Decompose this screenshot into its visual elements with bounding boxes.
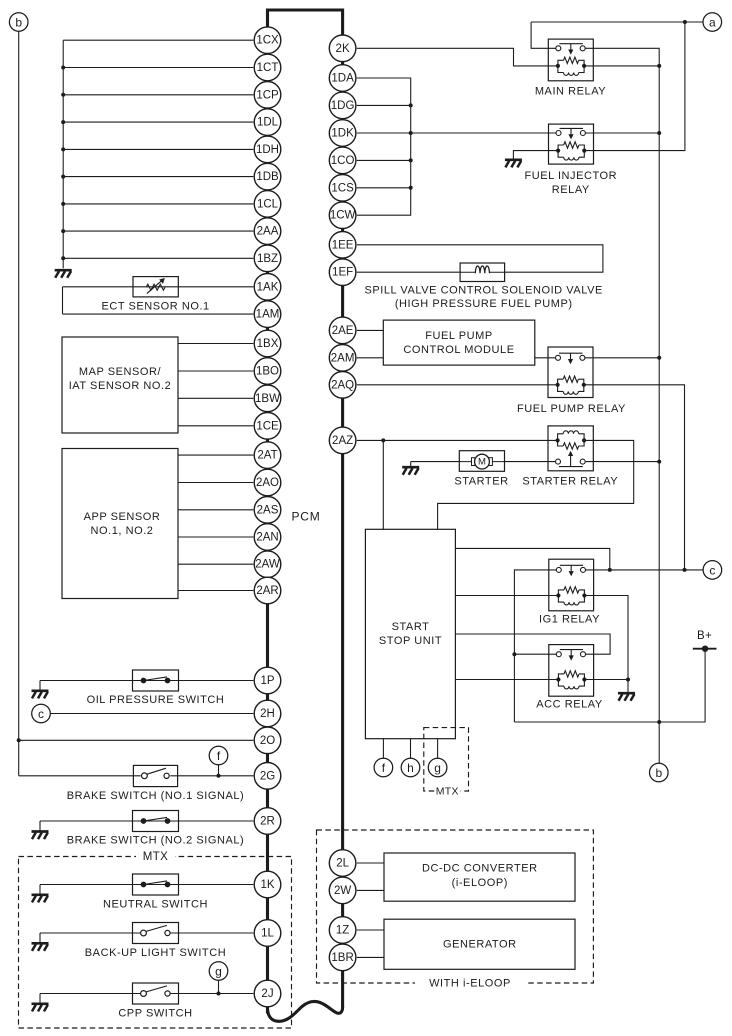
wire 2AE row	[357, 329, 384, 331]
svg-text:c: c	[38, 707, 44, 721]
svg-text:1AK: 1AK	[257, 281, 279, 293]
PCM pin 2AT	[254, 442, 281, 469]
PCM pin 2AO	[254, 469, 281, 496]
PCM pin 1DB	[254, 163, 281, 190]
wire 2AM row	[357, 357, 384, 359]
wire start stop unit to IG1 coil	[455, 595, 556, 597]
svg-text:2O: 2O	[260, 735, 275, 747]
ground (oil pressure switch)	[32, 691, 49, 699]
PCM pin 1BO	[254, 358, 281, 385]
ECT sensor thermistor box	[133, 277, 178, 297]
solenoid coil symbol (spill valve)	[460, 266, 505, 273]
svg-text:1EF: 1EF	[332, 267, 353, 279]
wire x685: a to fuel injector relay coil	[584, 22, 685, 151]
wire main relay switch right / x659 bus	[585, 48, 659, 722]
svg-text:1DB: 1DB	[256, 171, 279, 183]
wire 1K row	[40, 884, 253, 886]
svg-text:STOP UNIT: STOP UNIT	[379, 635, 442, 647]
junction 1DG row	[409, 103, 413, 107]
wire 1BZ row	[63, 257, 253, 259]
wire 2AR row	[178, 590, 253, 592]
junction 1CP row / left bus	[61, 93, 65, 97]
wire 2AZ down to start stop unit	[382, 440, 384, 529]
svg-text:ACC RELAY: ACC RELAY	[536, 698, 603, 710]
PCM pin 2AS	[254, 497, 281, 524]
START STOP UNIT box	[365, 529, 455, 738]
wire 1L row left	[40, 932, 141, 934]
junction 2AZ / start stop unit feed	[381, 438, 385, 442]
wire ACC switch left	[514, 653, 556, 655]
svg-text:g: g	[434, 761, 441, 775]
svg-text:1CS: 1CS	[331, 182, 354, 194]
junction ACC switch left / x514 bus	[512, 652, 516, 656]
wire left ground bus vertical	[62, 40, 64, 268]
svg-text:2AR: 2AR	[256, 585, 278, 597]
PCM pin 2O	[254, 727, 281, 754]
wire 1P row	[40, 680, 253, 682]
svg-text:MAP SENSOR/: MAP SENSOR/	[79, 366, 162, 378]
terminal B+	[693, 646, 717, 652]
label MTX (g pin)	[435, 786, 461, 798]
junction main relay coil / x659 bus	[657, 64, 661, 68]
wire 2L row	[357, 862, 384, 864]
svg-text:BRAKE SWITCH (NO.2 SIGNAL): BRAKE SWITCH (NO.2 SIGNAL)	[67, 834, 245, 846]
MAP/IAT sensor box	[62, 337, 178, 433]
generator box	[384, 919, 575, 969]
PCM pin 1CL	[254, 191, 281, 218]
junction 2AA row / left bus	[61, 229, 65, 233]
svg-text:1CP: 1CP	[256, 89, 279, 101]
svg-text:OIL PRESSURE SWITCH: OIL PRESSURE SWITCH	[87, 694, 225, 706]
wire a to main relay switch	[531, 22, 556, 48]
svg-text:IG1 RELAY: IG1 RELAY	[539, 614, 600, 626]
junction fuel injector switch / x659 bus	[657, 131, 661, 135]
svg-text:h: h	[407, 761, 414, 775]
PCM pin 2K	[329, 35, 356, 62]
relay MAIN RELAY	[548, 39, 593, 81]
wire IG1 switch left down	[514, 570, 556, 722]
solenoid valve box	[460, 263, 505, 282]
node g (start stop unit)	[428, 758, 447, 777]
PCM pin 2L	[329, 850, 356, 877]
wire starter to starter relay switch	[505, 461, 557, 463]
PCM pin 2J	[254, 980, 281, 1007]
svg-text:(HIGH PRESSURE FUEL PUMP): (HIGH PRESSURE FUEL PUMP)	[395, 298, 573, 310]
node a	[703, 13, 722, 32]
PCM pin 1BR	[329, 944, 356, 971]
PCM pin 1CT	[254, 54, 281, 81]
wire fuel pump relay coil right / x684 down	[583, 385, 685, 570]
junction 1CT row / left bus	[61, 66, 65, 70]
wire ground stub (CPP switch)	[39, 994, 41, 1003]
svg-text:1BX: 1BX	[257, 338, 279, 350]
svg-text:2AN: 2AN	[256, 532, 278, 544]
svg-text:2R: 2R	[260, 816, 275, 828]
svg-text:2G: 2G	[260, 770, 275, 782]
wire main relay coil right	[584, 65, 659, 67]
svg-text:b: b	[655, 766, 662, 780]
junction starter switch / x659 bus	[657, 460, 661, 464]
svg-text:2W: 2W	[334, 885, 351, 897]
wire node-a horizontal	[531, 21, 703, 23]
wire 2H row	[50, 713, 253, 715]
svg-text:2L: 2L	[336, 858, 349, 870]
svg-text:1CE: 1CE	[256, 420, 279, 432]
ground (neutral switch)	[32, 895, 49, 903]
junction fuel pump switch / x659 bus	[657, 356, 661, 360]
relay FUEL PUMP RELAY	[548, 347, 593, 398]
APP sensor box	[62, 449, 178, 599]
PCM pin 1AM	[254, 301, 281, 328]
dashed enclosure WITH i-ELOOP	[317, 830, 594, 983]
svg-text:1CL: 1CL	[257, 198, 279, 210]
svg-text:APP SENSOR: APP SENSOR	[84, 511, 161, 523]
fuel pump control module box	[383, 320, 535, 365]
svg-text:1CO: 1CO	[331, 155, 355, 167]
PCM pin 1CW	[329, 202, 356, 229]
svg-text:2AA: 2AA	[257, 226, 279, 238]
node h (start stop unit)	[401, 758, 420, 777]
node c (left)	[32, 704, 51, 723]
wire 2AQ to fuel pump relay coil	[357, 384, 557, 386]
svg-text:MTX: MTX	[436, 785, 459, 797]
ground (IG1/ACC relay)	[618, 693, 635, 701]
wire pin f stub	[382, 739, 384, 759]
PCM pin 2G	[254, 763, 281, 790]
svg-text:MTX: MTX	[143, 851, 168, 863]
node b (right)	[650, 763, 669, 782]
svg-text:PCM: PCM	[291, 510, 320, 524]
svg-text:1DK: 1DK	[331, 128, 354, 140]
node f (start stop unit)	[374, 758, 393, 777]
svg-text:1AM: 1AM	[256, 309, 280, 321]
PCM pin 1CO	[329, 147, 356, 174]
wire 1CO row	[357, 159, 411, 161]
ground (brake switch no.2)	[32, 832, 49, 840]
wire ACC coil right	[584, 679, 628, 681]
wire 1DG row	[357, 104, 411, 106]
PCM pin 1DA	[329, 65, 356, 92]
svg-text:2AW: 2AW	[255, 559, 280, 571]
wire starter relay coil right loop to start stop unit	[438, 440, 634, 529]
svg-text:1BR: 1BR	[331, 952, 353, 964]
PCM pin 1DL	[254, 109, 281, 136]
PCM pin 1Z	[329, 917, 356, 944]
switch BRAKE SWITCH NO.1 (open)	[133, 765, 177, 786]
ground (back-up light switch)	[32, 943, 49, 951]
relay STARTER RELAY	[548, 426, 593, 471]
wire 1EE loop	[357, 245, 603, 272]
svg-text:1CT: 1CT	[257, 62, 279, 74]
junction 1CS row	[409, 186, 413, 190]
svg-text:2AT: 2AT	[257, 450, 277, 462]
svg-text:2AS: 2AS	[257, 504, 279, 516]
PCM pin 2AZ	[329, 427, 356, 454]
wire g stub (left)	[218, 980, 220, 993]
svg-text:1P: 1P	[260, 675, 274, 687]
svg-text:2K: 2K	[336, 43, 350, 55]
wire 1BR row	[357, 956, 384, 958]
svg-text:1BW: 1BW	[255, 393, 280, 405]
wire fuel injector relay switch right	[582, 132, 659, 134]
wire 1DH row	[63, 148, 253, 150]
switch NEUTRAL SWITCH (closed)	[133, 874, 179, 895]
svg-text:NEUTRAL SWITCH: NEUTRAL SWITCH	[103, 898, 208, 910]
junction a line / right bus	[683, 20, 687, 24]
wire starter relay switch right	[586, 461, 659, 463]
wire 2AA row	[63, 230, 253, 232]
switch CPP SWITCH (open)	[133, 983, 179, 1004]
PCM pin 2AR	[254, 577, 281, 604]
PCM pin 2R	[254, 808, 281, 835]
PCM pin 1BX	[254, 330, 281, 357]
svg-text:MAIN RELAY: MAIN RELAY	[535, 86, 606, 98]
wire 1CE row	[178, 425, 253, 427]
label WITH i-ELOOP	[415, 977, 525, 989]
junction 1DB row / left bus	[61, 175, 65, 179]
junction 1CL row / left bus	[61, 202, 65, 206]
node f (left)	[209, 746, 228, 765]
svg-text:2AO: 2AO	[256, 477, 279, 489]
svg-text:ECT SENSOR NO.1: ECT SENSOR NO.1	[101, 301, 209, 313]
wire module to fuel pump relay switch	[535, 357, 557, 359]
DC-DC converter box	[384, 853, 575, 901]
PCM pin 1BW	[254, 385, 281, 412]
wire left b bus vertical	[18, 30, 20, 776]
wire 1DK to fuel injector relay switch	[411, 132, 557, 134]
junction 2O row / b bus	[17, 738, 21, 742]
PCM pin 2AM	[329, 345, 356, 372]
svg-text:2H: 2H	[260, 708, 275, 720]
junction 1DL row / left bus	[61, 120, 65, 124]
PCM pin 1P	[254, 667, 281, 694]
svg-text:FUEL INJECTOR: FUEL INJECTOR	[524, 170, 617, 182]
PCM pin 1DH	[254, 136, 281, 163]
wire 1DB row	[63, 176, 253, 178]
svg-text:CPP SWITCH: CPP SWITCH	[118, 1007, 192, 1019]
node g (left)	[209, 962, 228, 981]
svg-text:1L: 1L	[261, 928, 274, 940]
wire PCM bus (thick: column 1, top connector, column 2)	[268, 10, 343, 1014]
junction B+ line / x659 bus	[657, 720, 661, 724]
svg-text:1Z: 1Z	[336, 925, 349, 937]
svg-text:b: b	[15, 16, 22, 30]
junction f / 2G row	[217, 774, 221, 778]
wire x659 to node b	[658, 722, 660, 763]
svg-text:STARTER RELAY: STARTER RELAY	[522, 476, 618, 488]
wire 2AZ to starter relay coil	[357, 439, 557, 441]
starter motor STARTER	[459, 451, 504, 472]
wire B+ down and across	[514, 649, 705, 722]
wire ground to starter	[411, 461, 460, 463]
wire 2AO row	[178, 482, 253, 484]
junction g / 2J row	[217, 992, 221, 996]
svg-text:g: g	[215, 965, 222, 979]
ground (starter)	[402, 467, 419, 475]
wire 2AS row	[178, 509, 253, 511]
label MTX (top of dashed box)	[136, 851, 175, 863]
wire 1BW row	[178, 397, 253, 399]
svg-text:RELAY: RELAY	[552, 184, 590, 196]
svg-text:DC-DC CONVERTER: DC-DC CONVERTER	[422, 863, 538, 875]
svg-text:1DA: 1DA	[331, 73, 354, 85]
svg-text:1CX: 1CX	[256, 35, 279, 47]
svg-text:START: START	[392, 621, 430, 633]
svg-text:STARTER: STARTER	[454, 476, 508, 488]
wire 2W row	[357, 889, 384, 891]
node b (top left)	[9, 13, 28, 32]
wire 1AK row	[63, 286, 254, 288]
switch OIL PRESSURE SWITCH (closed)	[133, 670, 179, 691]
wire ground stub (brake switch no.2)	[39, 821, 41, 831]
switch BACK-UP LIGHT SWITCH (open)	[133, 923, 179, 944]
PCM pin 2W	[329, 877, 356, 904]
svg-text:CONTROL MODULE: CONTROL MODULE	[403, 344, 514, 356]
PCM pin 2AA	[254, 218, 281, 245]
ground (fuel injector relay)	[505, 160, 522, 168]
svg-text:2AM: 2AM	[331, 352, 355, 364]
PCM pin 1DG	[329, 92, 356, 119]
junction IG1 switch right	[608, 568, 612, 572]
PCM pin 1CX	[254, 27, 281, 54]
svg-text:BACK-UP LIGHT SWITCH: BACK-UP LIGHT SWITCH	[85, 947, 226, 959]
wire start stop unit to ACC coil	[455, 679, 556, 681]
junction c line / x684	[683, 568, 687, 572]
svg-text:1DL: 1DL	[257, 117, 279, 129]
wire 1CX row	[63, 39, 253, 41]
svg-text:1BO: 1BO	[256, 366, 279, 378]
PCM pin 1L	[254, 920, 281, 947]
wire fuel pump relay switch right	[583, 357, 660, 359]
relay ACC RELAY	[549, 645, 594, 697]
svg-text:1EE: 1EE	[332, 239, 354, 251]
wire 1CP row	[63, 94, 253, 96]
wire pin g stub	[437, 739, 439, 759]
wire ground stub (neutral switch)	[39, 885, 41, 894]
wire 2J row left	[40, 993, 141, 995]
PCM pin 1DK	[329, 120, 356, 147]
wire 1DL row	[63, 121, 253, 123]
PCM pin 1K	[254, 871, 281, 898]
wire 1DA-1CW connector loop	[357, 78, 411, 215]
ground (CPP switch)	[32, 1004, 49, 1012]
svg-text:NO.1, NO.2: NO.1, NO.2	[91, 525, 154, 537]
wire 1CT row	[63, 67, 253, 69]
PCM pin 1AK	[254, 274, 281, 301]
wire 1EF row	[357, 271, 460, 273]
ground (left bus)	[55, 270, 72, 278]
wire start stop unit to ACC switch right	[455, 634, 610, 654]
svg-text:2J: 2J	[261, 988, 273, 1000]
svg-text:M: M	[478, 457, 486, 468]
dashed enclosure MTX (manual transaxle switches)	[19, 857, 292, 1029]
wire IG1 switch right to node c	[583, 569, 704, 571]
PCM pin 1EF	[329, 259, 356, 286]
PCM pin 1CS	[329, 175, 356, 202]
svg-text:c: c	[709, 563, 715, 577]
svg-text:2AE: 2AE	[332, 325, 354, 337]
wire 2G row right	[170, 775, 253, 777]
svg-text:2AZ: 2AZ	[332, 435, 353, 447]
svg-text:SPILL VALVE CONTROL SOLENOID V: SPILL VALVE CONTROL SOLENOID VALVE	[365, 284, 603, 296]
svg-text:1BZ: 1BZ	[257, 253, 278, 265]
wire 1Z row	[357, 929, 384, 931]
PCM pin 2AW	[254, 551, 281, 578]
dashed enclosure MTX (g pin)	[424, 728, 469, 791]
PCM pin 2AN	[254, 524, 281, 551]
svg-text:1K: 1K	[260, 879, 274, 891]
svg-text:FUEL PUMP: FUEL PUMP	[425, 330, 493, 342]
junction IG1/ACC coil ground	[626, 678, 630, 682]
svg-text:2AQ: 2AQ	[331, 379, 354, 391]
wire 2AT row	[178, 454, 253, 456]
junction 1CO row	[409, 158, 413, 162]
PCM pin 2H	[254, 700, 281, 727]
wire PCM bottom wavy continuation	[268, 1001, 343, 1021]
wire 2G row left (to brake switch)	[19, 775, 141, 777]
wire 1AM row	[63, 313, 254, 315]
node c (right)	[703, 561, 722, 580]
PCM pin 2AQ	[329, 372, 356, 399]
wire 1CL row	[63, 203, 253, 205]
svg-text:BRAKE SWITCH (NO.1 SIGNAL): BRAKE SWITCH (NO.1 SIGNAL)	[67, 790, 245, 802]
relay FUEL INJECTOR RELAY	[549, 124, 594, 164]
wire ground stub (oil pressure switch)	[39, 681, 41, 690]
wire 2O row	[19, 739, 254, 741]
PCM pin 2AE	[329, 317, 356, 344]
svg-text:(i-ELOOP): (i-ELOOP)	[452, 877, 508, 889]
svg-text:WITH i-ELOOP: WITH i-ELOOP	[429, 978, 511, 990]
relay IG1 RELAY	[549, 559, 594, 611]
PCM pin 1CE	[254, 413, 281, 440]
wire 2AW row	[178, 563, 253, 565]
wire 1CS row	[357, 187, 411, 189]
wire ground stub (starter)	[410, 462, 412, 467]
svg-text:1DH: 1DH	[256, 144, 279, 156]
junction 1BZ row / left bus	[61, 256, 65, 260]
svg-text:1CW: 1CW	[330, 210, 356, 222]
wire ground stub (back-up light switch)	[39, 933, 41, 942]
wire IG1 coil right to ground	[584, 596, 628, 693]
wire 2J row right	[170, 993, 253, 995]
wire 2K to main relay coil	[357, 48, 557, 66]
PCM pin 1BZ	[254, 245, 281, 272]
wire 2AN row	[178, 536, 253, 538]
wire 1BX row	[178, 343, 253, 345]
wire 1L row right	[170, 932, 253, 934]
svg-text:FUEL PUMP RELAY: FUEL PUMP RELAY	[517, 403, 626, 415]
wire f stub	[218, 765, 220, 776]
PCM pin 1CP	[254, 82, 281, 109]
junction 1DK row	[409, 131, 413, 135]
switch BRAKE SWITCH NO.2 (closed)	[133, 811, 179, 832]
svg-text:a: a	[709, 16, 716, 30]
svg-text:GENERATOR: GENERATOR	[443, 939, 517, 951]
wire 1DK row	[357, 132, 411, 134]
wire 1BO row	[178, 370, 253, 372]
wire fuel injector relay coil to ground	[513, 151, 558, 159]
wire 2R row	[40, 820, 253, 822]
svg-text:IAT SENSOR NO.2: IAT SENSOR NO.2	[69, 380, 172, 392]
svg-text:B+: B+	[697, 630, 712, 642]
wire start stop unit to IG1 switch right	[455, 548, 609, 570]
thermistor symbol (ECT sensor)	[146, 278, 165, 294]
wire pin h stub	[410, 739, 412, 759]
svg-text:1DG: 1DG	[331, 100, 355, 112]
wire ECT sensor loop left	[62, 287, 64, 314]
junction 1DH row / left bus	[61, 147, 65, 151]
PCM pin 1EE	[329, 232, 356, 259]
